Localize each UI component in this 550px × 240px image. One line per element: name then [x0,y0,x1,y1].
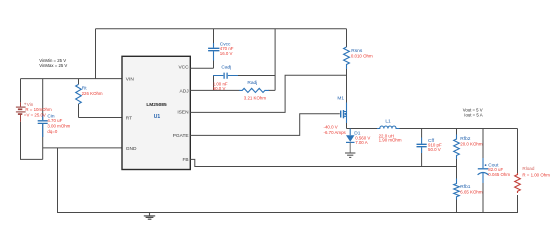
svg-text:FB: FB [182,157,188,163]
label Rsns [351,48,373,59]
svg-text:Radj: Radj [247,80,257,86]
svg-text:0.010 Ohm: 0.010 Ohm [351,54,373,59]
svg-text:LM25085: LM25085 [146,102,167,108]
svg-text:GND: GND [126,146,137,152]
wire ground drop [57,148,59,213]
svg-text:-40.0 V: -40.0 V [324,124,338,129]
label Radj [244,80,267,100]
resistor Rfb1 [454,167,460,214]
capacitor Cvcc [208,43,219,61]
svg-text:Vin: Vin [27,102,34,107]
wire battery bottom lead [21,122,43,159]
label Cvcc [220,42,234,56]
capacitor Cin [38,115,48,138]
label D1 [354,130,370,145]
wire GND pin net [43,147,122,149]
label VinMin/VinMax [39,58,67,68]
svg-text:M1: M1 [337,95,344,101]
capacitor Cff [417,129,427,167]
svg-text:16.0 V: 16.0 V [220,51,233,56]
wire Cin branch upper [42,79,44,121]
inductor L1 [377,126,400,129]
wire bottom rail [58,212,518,214]
label Rfb2 [460,136,483,147]
svg-text:4.70 uF: 4.70 uF [47,118,62,123]
label Vin [24,102,52,118]
wire VIN rail top-left [21,78,123,80]
svg-text:VIN: VIN [126,77,135,83]
svg-text:VinMax = 25 V: VinMax = 25 V [39,63,67,68]
wire LX node [347,128,518,130]
svg-text:dq=0: dq=0 [47,129,57,134]
wire VCC net [190,29,213,69]
IC U1 LM25085 body [122,56,190,169]
svg-text:=V = 25.0V: =V = 25.0V [24,113,46,118]
label Cadj [213,64,232,91]
svg-text:1.90 mOhm: 1.90 mOhm [379,138,402,143]
wire ADJ riser to VIN rail [274,29,276,91]
svg-text:R = 1.00 Ohm: R = 1.00 Ohm [522,172,550,177]
battery source Vin [16,102,26,122]
wire M1 drain column [346,69,348,103]
label Cout [485,163,511,178]
diode D1 [346,129,355,153]
svg-text:Rload: Rload [522,166,534,171]
svg-text:6.65 KOhm: 6.65 KOhm [460,189,483,194]
label Vout/Iout [463,108,483,118]
wire top rail vertical riser [95,29,97,79]
svg-text:RT: RT [126,115,132,121]
wire FB net [190,159,456,166]
wire RT pin [79,117,123,119]
capacitor Cadj [213,73,238,79]
svg-text:VCC: VCC [178,65,189,71]
svg-text:7.00 A: 7.00 A [355,140,368,145]
svg-text:20.0 KOhm: 20.0 KOhm [460,141,483,146]
svg-text:Iout = 5 A: Iout = 5 A [464,112,482,117]
label Cff [428,138,442,152]
svg-text:L1: L1 [385,118,391,124]
label Cin [47,113,70,134]
ground symbol D1 [345,153,355,157]
resistor Rt [76,84,82,104]
svg-text:PGATE: PGATE [173,133,189,139]
label L1 [379,118,402,142]
wire PGATE net [190,114,339,136]
svg-text:50.0 V: 50.0 V [213,86,226,91]
wire ADJ net [190,89,275,91]
label M1 node values [324,124,347,135]
transistor M1 (PFET) [341,110,347,118]
resistor Rload [515,129,521,214]
resistor Rfb2 [454,129,460,167]
svg-text:3.21 KOhm: 3.21 KOhm [244,95,267,100]
capacitor Cout [478,129,489,214]
label Rt [82,86,103,96]
wire battery top lead [20,79,22,103]
label Rfb1 [460,184,483,194]
svg-text:U1: U1 [154,114,161,120]
resistor Radj [239,88,269,92]
wire Cin branch lower [42,124,44,159]
resistor Rsns [346,29,348,47]
svg-text:-6.70 Amps: -6.70 Amps [324,130,347,135]
wire ISEN net [190,75,346,112]
ground symbol bottom rail [144,213,155,220]
svg-text:0.045 Ohm: 0.045 Ohm [488,172,510,177]
svg-text:ISEN: ISEN [177,110,189,116]
wire Rt branch [78,79,80,118]
label Rload [522,166,550,177]
svg-text:R = 10mOhm: R = 10mOhm [25,107,52,112]
svg-text:3.00 mOhm: 3.00 mOhm [47,123,70,128]
svg-text:ADJ: ADJ [180,88,190,94]
svg-text:50.0 V: 50.0 V [428,147,441,152]
svg-text:Cadj: Cadj [221,64,231,70]
wire top VIN rail [96,28,347,30]
wire Cadj branch [214,76,276,91]
svg-text:226 KOhm: 226 KOhm [82,91,103,96]
